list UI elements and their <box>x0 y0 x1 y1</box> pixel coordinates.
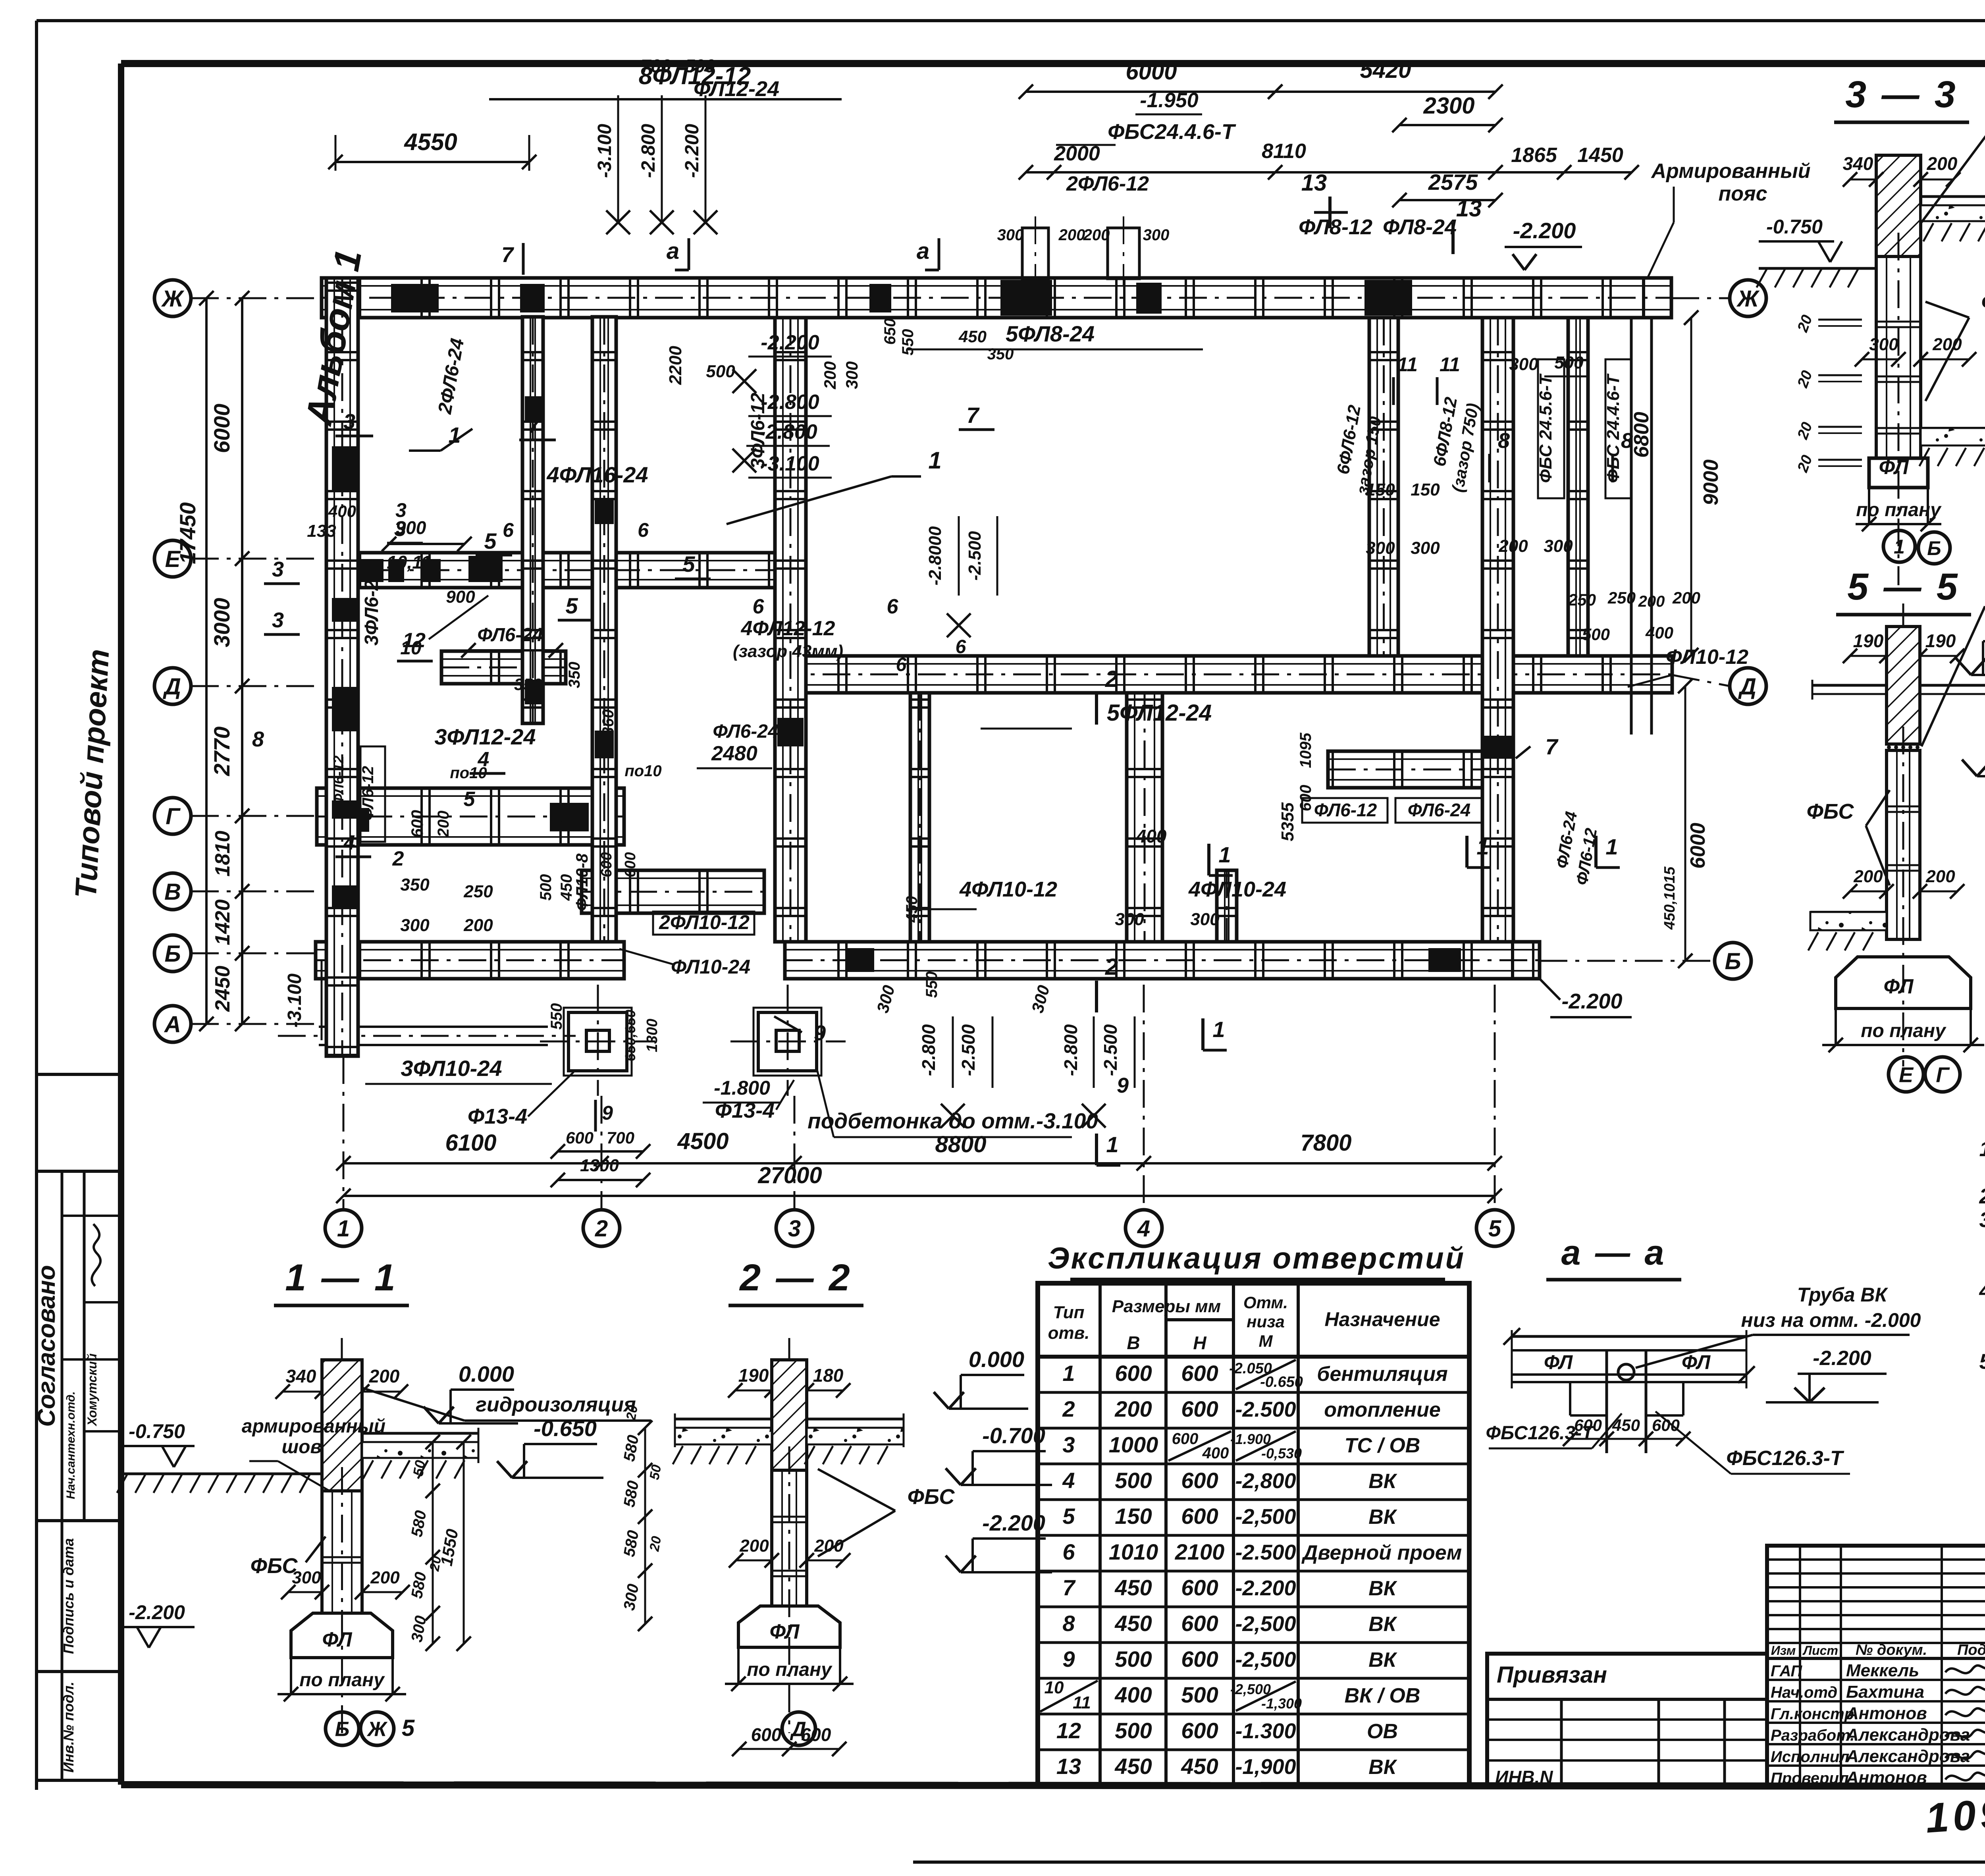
svg-text:ФБС: ФБС <box>908 1485 955 1509</box>
svg-text:ОВ: ОВ <box>1367 1720 1398 1743</box>
svg-text:ФЛ6-24: ФЛ6-24 <box>1408 800 1470 820</box>
svg-text:350: 350 <box>566 662 583 688</box>
wall row Ж <box>322 278 1671 318</box>
axis circle Б right <box>1715 943 1751 979</box>
svg-text:180: 180 <box>813 1365 844 1386</box>
svg-text:190: 190 <box>1853 630 1884 651</box>
wall right x3975 <box>1568 318 1588 656</box>
svg-text:Изм: Изм <box>1771 1643 1796 1658</box>
svg-text:150: 150 <box>1115 1504 1152 1529</box>
svg-text:7: 7 <box>966 403 980 428</box>
svg-text:20: 20 <box>623 1404 641 1422</box>
section 2-2 elevation -0.700 <box>961 1484 1052 1486</box>
svg-text:1: 1 <box>1106 1132 1118 1157</box>
wall vertical x2880 (4ФЛ6-12) <box>1127 693 1162 942</box>
svg-text:900: 900 <box>446 587 475 607</box>
svg-text:3ФЛ6-12: 3ФЛ6-12 <box>748 393 769 469</box>
left stamp boxes <box>37 1073 121 1076</box>
section 1-1 footing <box>291 1613 393 1658</box>
svg-text:200: 200 <box>1638 593 1665 610</box>
svg-text:20: 20 <box>647 1535 664 1553</box>
pier x1990 <box>777 718 804 746</box>
svg-text:Александрова: Александрова <box>1846 1725 1970 1745</box>
svg-text:600: 600 <box>408 810 426 838</box>
svg-text:-1.900: -1.900 <box>1230 1431 1271 1447</box>
section 5-5 brick pier <box>1887 627 1920 744</box>
svg-text:Исполнил: Исполнил <box>1771 1748 1849 1766</box>
svg-text:27000: 27000 <box>757 1163 822 1188</box>
piers axis1 wall <box>332 446 358 491</box>
piers axis2 wall <box>595 500 614 524</box>
svg-text:ВК: ВК <box>1368 1577 1397 1600</box>
top dimension chain <box>1026 91 1275 93</box>
svg-text:6000: 6000 <box>209 404 234 453</box>
svg-text:4: 4 <box>1062 1468 1075 1493</box>
svg-text:300: 300 <box>1115 910 1144 929</box>
svg-text:3: 3 <box>395 499 407 521</box>
svg-text:-2.200: -2.200 <box>761 331 819 354</box>
svg-text:4500: 4500 <box>677 1128 728 1154</box>
svg-text:200: 200 <box>463 916 493 935</box>
svg-text:6: 6 <box>503 519 514 541</box>
wall vertical x1340 <box>522 317 543 723</box>
svg-text:по плану: по плану <box>1856 499 1942 521</box>
svg-text:5420: 5420 <box>1360 57 1411 83</box>
svg-text:6: 6 <box>1062 1539 1075 1564</box>
svg-text:3 — 3: 3 — 3 <box>1845 73 1958 116</box>
svg-text:10,11: 10,11 <box>387 552 431 573</box>
svg-text:13: 13 <box>1301 170 1327 196</box>
svg-text:-2.800: -2.800 <box>918 1024 939 1076</box>
svg-text:Размеры мм: Размеры мм <box>1112 1297 1221 1316</box>
svg-text:7: 7 <box>528 413 541 438</box>
svg-text:ВК: ВК <box>1368 1506 1397 1529</box>
svg-text:7: 7 <box>1545 734 1559 759</box>
svg-text:Гл.констр: Гл.констр <box>1771 1705 1854 1723</box>
svg-text:9: 9 <box>1117 1074 1129 1097</box>
svg-text:450: 450 <box>958 327 987 346</box>
svg-text:1: 1 <box>1605 834 1618 859</box>
svg-text:500: 500 <box>1115 1468 1152 1493</box>
svg-text:150: 150 <box>1411 480 1440 499</box>
svg-text:по10: по10 <box>624 762 661 780</box>
svg-text:450: 450 <box>1114 1575 1152 1600</box>
axis circle Д right <box>1730 668 1766 704</box>
section 3-3 axis circles <box>1883 530 1915 562</box>
svg-text:Г: Г <box>166 804 181 829</box>
table frame <box>1038 1283 1469 1785</box>
svg-text:300: 300 <box>1143 226 1170 244</box>
svg-text:340: 340 <box>286 1366 316 1386</box>
svg-text:600: 600 <box>1181 1504 1218 1529</box>
section 2-2 floor slabs <box>675 1418 772 1421</box>
section 5-5 arm joint <box>1887 743 1920 745</box>
wall axis1 vertical <box>326 278 358 1056</box>
svg-text:Инв.№ подл.: Инв.№ подл. <box>60 1681 77 1772</box>
svg-text:10: 10 <box>400 638 422 659</box>
drawing frame thick <box>121 60 1985 67</box>
svg-text:500: 500 <box>1115 1647 1152 1672</box>
svg-text:20: 20 <box>427 1555 444 1573</box>
svg-text:ВК / ОВ: ВК / ОВ <box>1345 1684 1420 1707</box>
section 3-3 footing <box>1869 458 1928 488</box>
wall vertical x1990 <box>775 318 806 942</box>
svg-text:600: 600 <box>1181 1396 1218 1421</box>
svg-text:1: 1 <box>1218 842 1231 867</box>
svg-text:1: 1 <box>1212 1017 1225 1042</box>
bottom dimension chain segments <box>343 1162 1495 1165</box>
svg-text:13: 13 <box>1456 196 1482 222</box>
svg-text:ФЛ: ФЛ <box>1544 1351 1573 1373</box>
svg-text:300: 300 <box>292 1568 321 1587</box>
svg-text:-3.100: -3.100 <box>594 124 615 178</box>
title block frame <box>1767 1546 1985 1787</box>
svg-text:бентиляция: бентиляция <box>1317 1363 1447 1386</box>
svg-text:6: 6 <box>956 636 966 657</box>
svg-text:-2.500: -2.500 <box>1235 1398 1296 1421</box>
svg-text:-2.800: -2.800 <box>761 391 819 414</box>
svg-text:-2.200: -2.200 <box>1235 1576 1296 1600</box>
svg-text:Согласовано: Согласовано <box>33 1265 60 1427</box>
svg-text:-2.500: -2.500 <box>965 531 985 580</box>
svg-text:Е: Е <box>1899 1063 1914 1087</box>
svg-text:-1.300: -1.300 <box>1235 1719 1296 1743</box>
svg-text:1865: 1865 <box>1511 144 1557 167</box>
svg-text:-0,530: -0,530 <box>1261 1445 1302 1461</box>
section а-а strip <box>1512 1335 1746 1338</box>
svg-text:2: 2 <box>1062 1396 1075 1421</box>
svg-text:Ж: Ж <box>1736 286 1760 312</box>
svg-text:Д: Д <box>1738 674 1756 700</box>
svg-text:по плану: по плану <box>299 1670 385 1691</box>
section 5-5 FBS column <box>1887 750 1920 939</box>
wall row Д left piece <box>441 651 566 684</box>
axis column circles bottom <box>325 1210 362 1246</box>
axis centerlines vertical <box>343 1056 345 1210</box>
svg-text:3ФЛ6-24: 3ФЛ6-24 <box>361 569 382 646</box>
svg-text:-0.750: -0.750 <box>129 1420 185 1442</box>
svg-text:1300: 1300 <box>580 1156 619 1175</box>
svg-text:1010: 1010 <box>1109 1539 1158 1564</box>
pier row Д <box>1482 659 1514 690</box>
wall vertical x2315 <box>910 693 929 942</box>
svg-text:300: 300 <box>997 226 1024 244</box>
svg-text:Б: Б <box>1725 949 1741 974</box>
svg-text:ФЛ6-12: ФЛ6-12 <box>1314 800 1377 820</box>
left dimension chain <box>241 298 243 1024</box>
svg-text:350: 350 <box>400 875 430 895</box>
svg-text:4550: 4550 <box>404 129 457 155</box>
svg-text:13: 13 <box>1056 1754 1081 1779</box>
svg-text:340: 340 <box>1843 153 1873 174</box>
svg-text:ФБС: ФБС <box>1981 289 1985 314</box>
top dim line 2 <box>1026 171 1495 174</box>
svg-text:400: 400 <box>1202 1444 1229 1462</box>
svg-text:133: 133 <box>307 521 336 541</box>
svg-text:6: 6 <box>896 654 907 675</box>
svg-text:6100: 6100 <box>445 1130 496 1156</box>
top dim 2300 <box>1399 124 1495 126</box>
svg-text:2100: 2100 <box>1175 1539 1225 1564</box>
wall vertical x3485 (6ФЛ6-12) <box>1369 318 1398 656</box>
svg-text:шов: шов <box>282 1436 322 1458</box>
section 2-2 elevation -2.200 <box>961 1571 1052 1573</box>
svg-text:пояс: пояс <box>1718 182 1767 205</box>
svg-text:190: 190 <box>1925 630 1956 651</box>
svg-text:1095: 1095 <box>1297 733 1314 768</box>
svg-text:400: 400 <box>1136 826 1167 846</box>
section 2-2 left dim chain <box>644 1428 646 1624</box>
svg-text:8: 8 <box>252 727 264 751</box>
svg-text:300: 300 <box>1190 910 1220 929</box>
svg-text:1810: 1810 <box>211 831 234 877</box>
wall vertical x3770 (6ФЛ8-12) <box>1482 318 1513 942</box>
svg-text:3ФЛ12-24: 3ФЛ12-24 <box>434 724 536 749</box>
svg-text:ФЛ: ФЛ <box>322 1628 352 1651</box>
axis circle Ж right <box>1730 280 1766 316</box>
svg-text:№ докум.: № докум. <box>1856 1642 1927 1658</box>
svg-text:5: 5 <box>1062 1504 1075 1529</box>
svg-text:300: 300 <box>1544 536 1573 556</box>
svg-text:360: 360 <box>599 710 617 736</box>
section 5-5 axis circles <box>1889 1057 1923 1092</box>
svg-text:1: 1 <box>928 447 941 474</box>
svg-text:450: 450 <box>1114 1611 1152 1636</box>
svg-text:Д: Д <box>162 674 181 700</box>
svg-text:Нач.отд: Нач.отд <box>1771 1684 1837 1701</box>
svg-text:Меккель: Меккель <box>1846 1661 1919 1680</box>
piers row Б <box>846 948 874 972</box>
svg-text:450: 450 <box>903 896 921 923</box>
svg-text:3ФЛ10-24: 3ФЛ10-24 <box>401 1056 502 1081</box>
svg-text:3: 3 <box>343 410 355 434</box>
svg-text:0.000: 0.000 <box>459 1361 514 1386</box>
svg-text:600: 600 <box>1181 1361 1218 1386</box>
svg-text:6000: 6000 <box>1686 823 1709 869</box>
svg-text:600: 600 <box>1297 785 1314 812</box>
svg-text:Г: Г <box>1936 1063 1950 1087</box>
piers x1340 <box>525 396 543 422</box>
svg-text:450,1015: 450,1015 <box>1661 866 1678 930</box>
svg-text:ФБС126.3-Т: ФБС126.3-Т <box>1486 1423 1595 1444</box>
svg-text:600: 600 <box>1652 1416 1680 1434</box>
svg-text:600: 600 <box>1181 1575 1218 1600</box>
svg-text:ФЛ8-24: ФЛ8-24 <box>1383 215 1457 239</box>
svg-text:М: М <box>1259 1332 1273 1350</box>
section а-а center pier <box>1605 1350 1608 1453</box>
svg-text:ФЛ10-24: ФЛ10-24 <box>671 956 750 978</box>
svg-text:-3.100: -3.100 <box>284 974 305 1028</box>
svg-text:8: 8 <box>1498 429 1510 453</box>
svg-text:3000: 3000 <box>209 598 234 648</box>
svg-text:200: 200 <box>1114 1396 1152 1421</box>
svg-text:1: 1 <box>337 1216 350 1242</box>
svg-text:ФЛ8-12: ФЛ8-12 <box>1299 215 1372 239</box>
svg-text:650: 650 <box>881 318 899 345</box>
staff table grid <box>1767 1558 1985 1561</box>
svg-text:2: 2 <box>1105 666 1118 692</box>
section 2-2 elevation 0.000 <box>949 1407 1028 1410</box>
svg-text:ФЛ10-8: ФЛ10-8 <box>572 853 591 911</box>
svg-text:ИНВ.N: ИНВ.N <box>1495 1767 1553 1787</box>
svg-text:В: В <box>164 879 181 905</box>
svg-text:300: 300 <box>1509 355 1538 374</box>
svg-text:-2.200: -2.200 <box>682 124 703 178</box>
svg-text:300: 300 <box>400 916 430 935</box>
svg-text:ФЛ12-24: ФЛ12-24 <box>694 77 779 101</box>
svg-text:5: 5 <box>1488 1216 1501 1242</box>
svg-text:200: 200 <box>1058 226 1085 244</box>
svg-text:2480: 2480 <box>711 742 757 765</box>
svg-text:а — а: а — а <box>1561 1233 1667 1272</box>
svg-text:-2.200: -2.200 <box>1813 1347 1871 1370</box>
svg-text:Антонов: Антонов <box>1846 1768 1927 1787</box>
svg-text:ФЛ6-24: ФЛ6-24 <box>477 625 543 646</box>
svg-text:4: 4 <box>1137 1216 1150 1242</box>
svg-text:Подпись и дата: Подпись и дата <box>60 1538 77 1654</box>
svg-text:5: 5 <box>682 551 695 576</box>
привязан box <box>1487 1654 1767 1787</box>
svg-text:Лист: Лист <box>1802 1643 1838 1658</box>
end box row Ж right <box>1644 278 1671 318</box>
svg-text:3: 3 <box>272 557 284 581</box>
svg-text:450: 450 <box>1114 1754 1152 1779</box>
svg-text:Д: Д <box>790 1718 806 1741</box>
svg-text:0.000: 0.000 <box>969 1347 1024 1372</box>
svg-text:200: 200 <box>821 361 839 389</box>
svg-text:Армированный: Армированный <box>1650 160 1810 183</box>
svg-text:-2.200: -2.200 <box>129 1601 185 1623</box>
section а-а dims 600 450 600 <box>1570 1438 1683 1440</box>
svg-text:а: а <box>917 238 929 264</box>
svg-text:1000: 1000 <box>1109 1432 1158 1457</box>
svg-text:350: 350 <box>987 345 1014 363</box>
svg-text:12: 12 <box>1056 1718 1081 1743</box>
svg-text:500: 500 <box>1181 1682 1218 1707</box>
svg-text:600: 600 <box>1115 1361 1152 1386</box>
svg-text:-2,500: -2,500 <box>1230 1681 1271 1697</box>
svg-text:Б: Б <box>164 941 181 967</box>
svg-text:5: 5 <box>464 788 476 811</box>
svg-text:1420: 1420 <box>211 899 234 945</box>
section 5-5 floor slabs <box>1812 684 1887 687</box>
svg-text:Дверной проем: Дверной проем <box>1301 1541 1462 1564</box>
svg-text:8: 8 <box>1062 1611 1075 1636</box>
svg-text:Нач.сантехн.отд.: Нач.сантехн.отд. <box>64 1391 77 1499</box>
piers row Г <box>349 808 369 832</box>
svg-text:(зазор 43мм): (зазор 43мм) <box>733 642 843 661</box>
elevation marks top-left group <box>617 95 619 222</box>
svg-text:Разработ.: Разработ. <box>1771 1727 1854 1744</box>
svg-text:а: а <box>667 238 679 264</box>
svg-text:600: 600 <box>1181 1468 1218 1493</box>
svg-text:3.: 3. <box>1979 1208 1985 1232</box>
svg-text:Хомутский: Хомутский <box>85 1353 99 1427</box>
svg-text:3: 3 <box>1062 1432 1075 1457</box>
svg-text:6800: 6800 <box>1630 412 1653 458</box>
svg-text:-2.500: -2.500 <box>1100 1024 1121 1076</box>
svg-text:8110: 8110 <box>1262 140 1306 163</box>
svg-text:590: 590 <box>685 56 715 76</box>
svg-text:2ФЛ10-12: 2ФЛ10-12 <box>659 911 750 933</box>
svg-text:650,650: 650,650 <box>622 1010 638 1061</box>
svg-text:Ж: Ж <box>161 286 185 312</box>
svg-text:17450: 17450 <box>175 502 200 564</box>
svg-text:600: 600 <box>1181 1647 1218 1672</box>
svg-text:4ФЛ12-12: 4ФЛ12-12 <box>741 617 835 640</box>
svg-text:400: 400 <box>1114 1682 1152 1707</box>
svg-text:Б: Б <box>335 1718 350 1741</box>
svg-text:-2.500: -2.500 <box>958 1024 979 1076</box>
svg-text:450: 450 <box>1181 1754 1218 1779</box>
svg-text:А: А <box>164 1012 181 1037</box>
svg-text:-1.800: -1.800 <box>714 1077 770 1099</box>
svg-text:200: 200 <box>1083 226 1110 244</box>
svg-text:1: 1 <box>1476 834 1489 859</box>
svg-text:-2.800: -2.800 <box>638 124 659 178</box>
svg-text:50: 50 <box>647 1463 664 1481</box>
svg-text:3: 3 <box>788 1216 801 1242</box>
svg-text:2.: 2. <box>1979 1184 1985 1208</box>
svg-text:-1,900: -1,900 <box>1235 1755 1296 1779</box>
label зазор 43мм band <box>907 908 977 910</box>
svg-text:ФЛ: ФЛ <box>769 1620 800 1643</box>
svg-text:2575: 2575 <box>1428 170 1478 195</box>
svg-text:5ФЛ8-24: 5ФЛ8-24 <box>1006 321 1095 346</box>
svg-text:5: 5 <box>565 593 578 618</box>
svg-text:5ФЛ12-24: 5ФЛ12-24 <box>1107 700 1212 726</box>
svg-text:-2.500: -2.500 <box>1235 1541 1296 1564</box>
svg-text:7: 7 <box>1062 1575 1076 1600</box>
svg-text:500: 500 <box>1115 1718 1152 1743</box>
svg-text:ФБС126.3-Т: ФБС126.3-Т <box>1726 1447 1844 1470</box>
svg-text:ФБС: ФБС <box>1807 800 1854 823</box>
svg-text:550: 550 <box>548 1003 565 1030</box>
wall row Б right <box>785 942 1540 979</box>
svg-text:Труба ВК: Труба ВК <box>1797 1284 1889 1306</box>
svg-text:2: 2 <box>595 1216 608 1242</box>
svg-text:-2.8000: -2.8000 <box>925 526 945 586</box>
wall corridor 2ФЛ10-12 <box>582 870 764 913</box>
svg-text:500: 500 <box>537 874 555 901</box>
svg-text:-3.100: -3.100 <box>761 452 819 475</box>
svg-text:2: 2 <box>392 847 404 870</box>
svg-text:200: 200 <box>1927 153 1958 174</box>
svg-text:-2,500: -2,500 <box>1235 1648 1296 1672</box>
section 1-1 axis circles <box>326 1712 359 1745</box>
svg-text:-2.200: -2.200 <box>1513 218 1576 243</box>
wall vertical x3090 <box>1217 870 1237 942</box>
svg-text:4ФЛ10-12: 4ФЛ10-12 <box>959 877 1057 901</box>
svg-text:Назначение: Назначение <box>1324 1308 1440 1330</box>
piers row Ж <box>391 284 439 312</box>
svg-text:ВК: ВК <box>1368 1756 1397 1779</box>
svg-text:1450: 1450 <box>1577 144 1623 167</box>
svg-text:гидроизоляция: гидроизоляция <box>476 1393 636 1416</box>
wall row Е left <box>326 553 777 588</box>
svg-text:по плану: по плану <box>747 1659 833 1680</box>
svg-text:6: 6 <box>638 519 649 541</box>
svg-text:500: 500 <box>706 362 735 381</box>
section 5-5 footing <box>1836 957 1971 1008</box>
svg-text:Подп.: Подп. <box>1957 1642 1985 1658</box>
svg-text:4: 4 <box>343 831 355 854</box>
section а-а legs <box>1569 1382 1571 1415</box>
svg-text:по плану: по плану <box>1861 1020 1946 1041</box>
svg-text:-1.950: -1.950 <box>1140 89 1199 112</box>
svg-text:ФЛ: ФЛ <box>1879 456 1909 479</box>
section 5-5 elevation -0.700 <box>1977 775 1985 777</box>
